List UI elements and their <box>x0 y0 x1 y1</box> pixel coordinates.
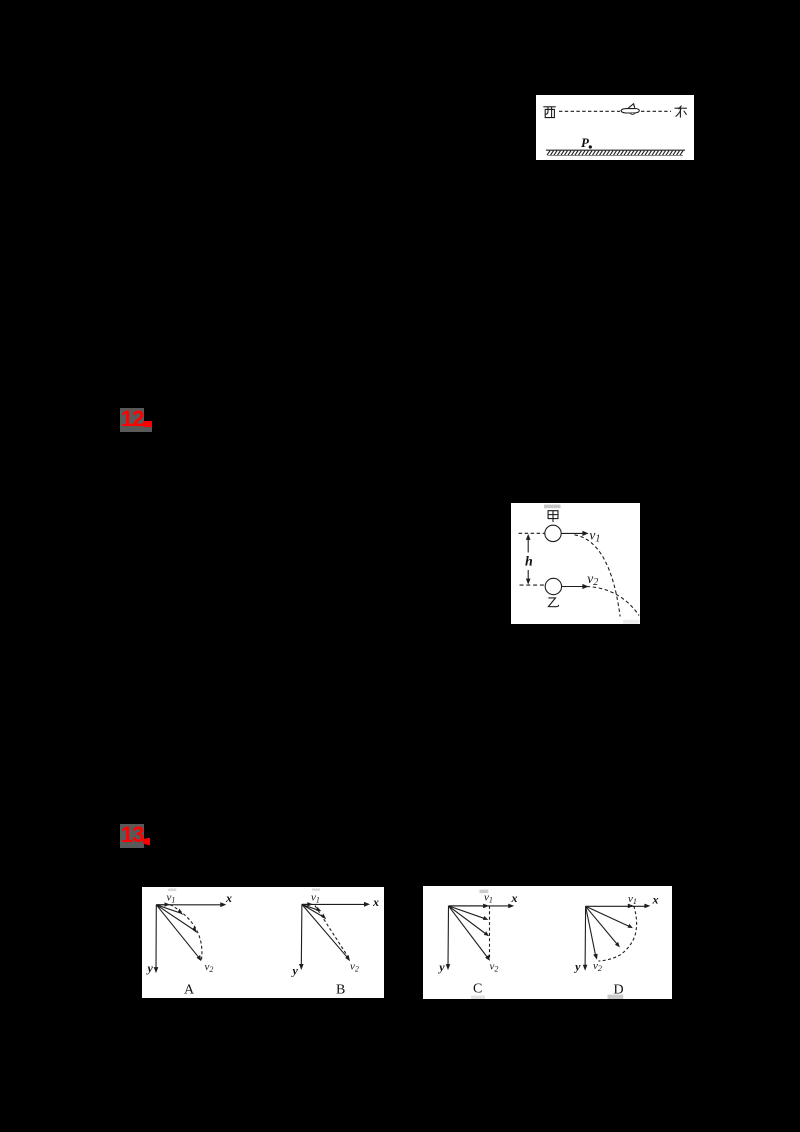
B middle vector 2 <box>302 904 323 917</box>
A y-axis <box>155 905 157 970</box>
svg-text:v1: v1 <box>311 892 320 905</box>
A v1 vector <box>156 904 166 906</box>
svg-text:v2: v2 <box>350 960 359 973</box>
options A and B figure box <box>142 887 384 998</box>
D middle vector 2 <box>586 906 618 944</box>
svg-text:v2: v2 <box>205 961 214 974</box>
svg-text:B: B <box>336 983 345 998</box>
h double arrow lower segment <box>527 570 529 581</box>
C middle vector 2 <box>449 906 487 934</box>
red period mark of 13. <box>143 838 151 846</box>
smudge below C <box>471 996 485 1000</box>
svg-text:h: h <box>525 555 533 570</box>
svg-text:v1: v1 <box>589 528 600 545</box>
ball 甲 <box>545 525 561 541</box>
svg-text:C: C <box>473 982 482 997</box>
svg-text:x: x <box>372 895 379 909</box>
dashed flight line (east side) <box>641 110 671 112</box>
D v2 vector <box>586 906 596 956</box>
label 乙 <box>548 598 558 607</box>
svg-text:y: y <box>291 964 299 978</box>
v2 arrow <box>562 586 585 588</box>
C middle vector 1 <box>449 906 486 919</box>
red question number 12 text <box>121 407 149 431</box>
C x-axis <box>449 905 511 907</box>
B dashed chord line <box>315 906 349 958</box>
A middle vector 2 <box>156 905 194 930</box>
figure: plane over ground (question figure 1) <box>536 95 694 160</box>
svg-text:v1: v1 <box>484 892 493 905</box>
C y-axis <box>447 906 450 967</box>
red question number 13 highlight <box>120 824 144 848</box>
red period bar of 12. <box>143 421 152 427</box>
B y-axis <box>300 904 303 966</box>
C v2 vector <box>449 906 488 958</box>
svg-text:y: y <box>573 960 581 974</box>
smudge above C v1 <box>480 890 489 894</box>
D y-axis <box>584 906 587 967</box>
ball 乙 <box>545 578 561 594</box>
svg-text:v1: v1 <box>628 893 637 906</box>
B v2 vector <box>302 904 348 958</box>
svg-text:A: A <box>184 983 195 998</box>
svg-text:x: x <box>511 891 518 905</box>
D middle vector 1 <box>586 906 630 926</box>
C dashed vertical line <box>489 906 491 960</box>
figure: two balls projectile (甲/乙) <box>511 503 640 624</box>
svg-text:v2: v2 <box>587 571 598 588</box>
v1 arrow <box>562 532 585 534</box>
trajectory of 乙 (dashed) <box>587 587 640 616</box>
label 西 (west) <box>543 107 556 118</box>
svg-text:x: x <box>225 891 232 905</box>
B middle vector 1 <box>302 904 318 910</box>
svg-text:D: D <box>614 983 624 998</box>
D dashed arc <box>599 906 637 961</box>
red question number 13 text <box>121 823 149 847</box>
B v1 vector <box>302 903 310 905</box>
scan smudge top <box>544 505 561 509</box>
trajectory of 甲 (dashed) <box>575 535 621 617</box>
A v2 vector <box>156 905 199 959</box>
ground bottom line <box>548 155 683 157</box>
D v1 vector arrowhead <box>628 904 634 909</box>
smudge above A v1 <box>168 889 176 892</box>
svg-text:y: y <box>437 960 445 974</box>
scan smudge bottom right <box>623 620 640 624</box>
ground hatching <box>547 151 683 156</box>
dashed flight line (west side) <box>559 110 620 112</box>
D x-axis <box>586 905 647 907</box>
svg-text:v2: v2 <box>593 960 602 973</box>
svg-text:x: x <box>652 893 659 907</box>
smudge below D <box>608 995 624 999</box>
red question number 12 highlight <box>120 408 144 432</box>
label 甲 <box>548 511 558 522</box>
A middle vector 1 <box>156 905 180 913</box>
A x-axis <box>156 904 222 906</box>
svg-text:P: P <box>581 135 590 150</box>
svg-text:v2: v2 <box>490 961 499 974</box>
h double arrow upper segment <box>527 538 529 553</box>
ground line <box>546 149 685 151</box>
airplane icon <box>621 104 639 115</box>
svg-text:y: y <box>146 961 154 975</box>
A dashed speed curve <box>170 905 202 962</box>
label 东 (east) <box>675 106 687 118</box>
B x-axis <box>302 903 367 905</box>
options C and D figure box <box>423 886 672 999</box>
C v1 vector <box>449 905 486 907</box>
point P dot <box>589 145 592 148</box>
svg-text:v1: v1 <box>167 892 176 905</box>
smudge above B v1 <box>312 889 320 891</box>
upper dashed level line <box>519 532 545 534</box>
lower dashed level line <box>520 584 545 586</box>
